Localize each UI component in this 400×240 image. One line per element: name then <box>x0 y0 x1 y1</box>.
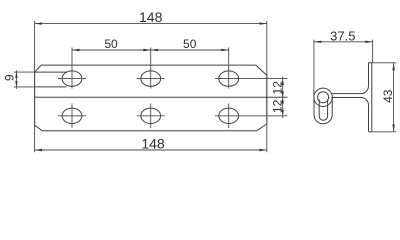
svg-text:9: 9 <box>2 74 16 81</box>
svg-text:148: 148 <box>141 136 165 152</box>
svg-text:50: 50 <box>183 37 197 51</box>
svg-text:37.5: 37.5 <box>330 28 355 43</box>
svg-text:43: 43 <box>381 89 395 103</box>
svg-text:50: 50 <box>104 37 118 51</box>
svg-text:12: 12 <box>270 81 284 95</box>
svg-text:148: 148 <box>139 9 163 25</box>
svg-text:12: 12 <box>270 99 284 113</box>
